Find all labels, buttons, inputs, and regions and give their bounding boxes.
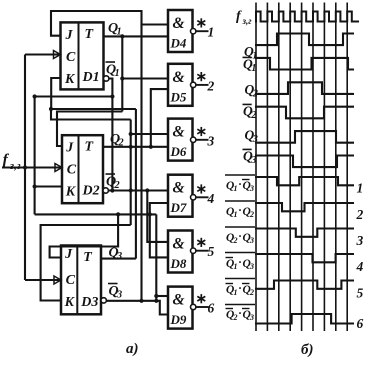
svg-text:2: 2 [207,78,215,93]
NAND gate D8 [168,231,193,273]
svg-text:2: 2 [250,110,256,121]
node: K2 rail top junction [33,94,37,98]
svg-text:а): а) [126,341,139,357]
wire: lower feed run [35,213,157,215]
svg-text:&: & [173,292,185,309]
output bubble of D8 [191,248,196,253]
inverting output bubble of D3 [101,298,106,303]
svg-text:·: · [239,257,242,269]
svg-text:з,г: з,г [242,16,253,26]
svg-text:2: 2 [252,89,258,100]
output wire of D4 [196,30,209,32]
node: clock rail junction [23,165,27,169]
wire: Q2-bar to D8 input 1 [147,191,168,242]
wire: Q3 vertical bus [135,109,137,259]
svg-text:D2: D2 [82,184,100,199]
svg-text:T: T [85,27,95,42]
svg-text:·: · [239,308,242,320]
node: Q1 junction [120,34,124,38]
node: J3 feed junction [116,212,120,216]
wire: K3 feed run [41,225,131,301]
svg-text:D4: D4 [170,36,187,51]
svg-text:3: 3 [252,134,258,145]
svg-text:1: 1 [234,184,238,193]
svg-text:D6: D6 [170,144,187,159]
svg-text:&: & [173,69,185,86]
NAND gate D6 [168,119,193,161]
svg-text:T: T [83,250,93,265]
wire: Q2/Q2-bar vertical link [130,120,132,226]
svg-text:J: J [65,141,74,156]
svg-text:C: C [67,163,77,178]
svg-text:3: 3 [249,262,254,271]
open-collector star mark at D5 output [200,72,202,81]
clock rail vertical [24,55,26,281]
open-collector star mark at D4 output [200,18,202,27]
waveform f (clock pulses) [255,12,359,22]
node: Q2 junction 1 [129,145,133,149]
waveform out2 [255,203,354,211]
flip-flop D2 (JK trigger) [62,135,103,203]
svg-text:6: 6 [208,301,215,316]
output wire of D7 [196,196,209,198]
open-collector star mark at D6 output [200,127,202,136]
svg-text:1: 1 [234,262,238,271]
wire: clock input f [2,166,62,168]
wire: Q2 branch to D6 input 1 [131,133,168,135]
waveform out3 [255,229,354,237]
node: Q1-bar junction at Q2-bar line [110,188,114,192]
open-collector star mark at D9 output [200,294,202,303]
svg-text:D8: D8 [170,256,187,271]
svg-text:C: C [66,50,76,65]
svg-text:з,г: з,г [9,161,21,172]
wire: K2 input stub of D2 [35,185,62,187]
svg-text:&: & [173,15,185,32]
svg-text:3: 3 [250,155,256,166]
NAND gate D4 [168,10,193,52]
timing grid vertical lines [255,3,257,332]
svg-text:3: 3 [356,233,364,248]
svg-text:&: & [173,236,185,253]
svg-text:3: 3 [116,290,122,301]
wire: Q1 vertical drop [121,36,123,111]
svg-text:1: 1 [251,63,256,74]
node: Q3-bar junction with vertical bus [139,299,143,303]
inverting output bubble of D1 [104,76,109,81]
svg-text:2: 2 [114,180,120,191]
wire: Q3-bar output run [106,301,168,315]
output bubble of D5 [191,82,196,87]
wire: feed to D7 input 2 [150,203,168,257]
svg-text:2: 2 [233,313,238,322]
svg-text:2: 2 [249,210,254,219]
svg-text:·: · [239,283,242,295]
svg-text:3: 3 [116,251,122,262]
wire: D9 input 1 stub [156,295,168,297]
wire: Q3 to K of D1 [51,78,136,109]
output bubble of D6 [191,137,196,142]
waveform out4 [255,254,354,262]
node: Q2-bar junction 2 [145,188,149,192]
wire: Q3-bar vertical bus [140,25,142,301]
svg-text:5: 5 [208,244,215,259]
output wire of D5 [196,84,209,86]
node: D9 input 1 junction [154,294,158,298]
svg-text:3: 3 [249,184,254,193]
wire: J3 feed drop [50,214,119,257]
svg-text:K: K [64,72,76,87]
svg-text:5: 5 [357,286,364,301]
wire: Q1-bar rail down left [34,97,36,215]
output wire of D6 [196,139,209,141]
waveform Q3bar [255,156,354,168]
svg-text:3: 3 [207,133,215,148]
output wire of D9 [196,306,209,308]
wire: Q1 branch to J of D2 [57,112,122,147]
svg-text:K: K [65,185,77,200]
waveform Q1bar [255,58,354,70]
node: staircase junction on K1 line [49,107,53,111]
svg-text:&: & [173,124,185,141]
output wire of D8 [196,250,209,252]
NAND gate D7 [168,175,193,217]
waveform Q3 [255,131,354,143]
svg-text:J: J [64,247,73,262]
wire: feed to D9 input 1 [155,214,157,300]
flip-flop D3 (JK trigger) [61,246,101,315]
svg-text:4: 4 [207,191,215,206]
wire: Q1 output to D4 input 2 [104,35,169,37]
svg-text:C: C [66,273,76,288]
svg-text:1: 1 [208,25,215,40]
wire: Q3-bar feedback rail to J of D1 and D4 input [51,11,168,36]
node: Q1-bar junction at drop [110,94,114,98]
inverting output bubble of D2 [103,188,108,193]
node: Q2 junction 2 [149,145,153,149]
svg-text:1: 1 [115,68,120,79]
svg-text:1: 1 [234,288,238,297]
waveform out1 [255,177,354,185]
output bubble of D9 [191,304,196,309]
waveform out6 [255,314,354,324]
svg-text:J: J [65,28,74,43]
wire: Q2 up to D5 input 2 [151,89,168,147]
svg-text:D3: D3 [80,295,98,310]
waveform out5 [255,281,354,289]
NAND gate D9 [168,287,193,329]
wire: Q2-bar output to D7 input 1 [108,189,168,191]
svg-text:·: · [239,231,242,243]
svg-text:T: T [85,140,95,155]
wire: Q1-bar from bubble of D1 [109,79,113,191]
svg-text:2: 2 [249,288,254,297]
node: Q2-bar junction 1 [129,188,133,192]
wire: Q2 output to D6 input 2 [103,146,168,148]
svg-text:б): б) [301,342,313,358]
svg-text:2: 2 [356,207,364,222]
svg-text:·: · [239,205,242,217]
svg-text:·: · [239,179,242,191]
waveform Q2bar [255,107,354,119]
svg-text:D9: D9 [170,312,187,327]
svg-text:D5: D5 [170,89,187,104]
svg-text:D1: D1 [82,70,100,85]
svg-text:1: 1 [234,210,238,219]
waveform Q1 [255,34,354,46]
waveform Q2 [255,82,354,94]
node: K2 branch junction [33,184,37,188]
output bubble of D7 [191,195,196,200]
svg-text:1: 1 [252,51,257,62]
open-collector star mark at D7 output [200,184,202,193]
svg-text:3: 3 [249,236,254,245]
NAND gate D5 [168,64,193,106]
wire: Q3 output of D3 [101,258,136,260]
wire: clock to C of D1 [25,53,61,55]
node: D6 input junction [129,132,133,136]
svg-text:D7: D7 [170,200,187,215]
node: D7/D8 feed junction [148,212,152,216]
wire: clock to C of D3 [25,279,61,281]
svg-text:1: 1 [357,181,364,196]
svg-text:4: 4 [356,259,364,274]
svg-text:6: 6 [357,316,364,331]
wire: Q1 branch to D5 input 1 [122,77,168,79]
svg-text:2: 2 [233,236,238,245]
wire: Q2 staircase to left [51,109,131,120]
open-collector star mark at D8 output [200,238,202,247]
svg-text:&: & [173,180,185,197]
svg-text:K: K [64,295,76,310]
output bubble of D4 [191,29,196,34]
node: Q1/D5 junction [120,76,124,80]
wire: Q1-bar horizontal run [35,95,113,97]
svg-text:3: 3 [249,313,254,322]
flip-flop D1 (JK trigger) [61,22,104,89]
node: Q3-bar junction with D9 feed [154,299,158,303]
